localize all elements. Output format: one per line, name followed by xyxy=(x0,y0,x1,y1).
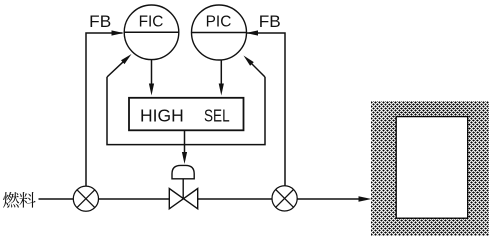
arrowhead into FIC left xyxy=(112,30,124,35)
wire: FIC output down to selector xyxy=(151,60,153,85)
controller PIC (instrument bubble) xyxy=(192,5,247,60)
wire: PIC output down to selector xyxy=(220,60,222,85)
valve stem xyxy=(182,179,184,199)
wire: left FB feedback line (from flow transmitter up, then right into FIC) xyxy=(86,33,123,186)
control valve actuator dome xyxy=(172,165,194,178)
furnace interior outline xyxy=(396,117,468,219)
furnace wall (crosshatched ring) xyxy=(208,81,495,242)
selector box HIGH SEL xyxy=(129,98,244,131)
pressure transmitter (circle-X) right xyxy=(272,186,297,211)
arrowhead into furnace xyxy=(359,196,372,201)
control valve body (bowtie) xyxy=(169,189,197,209)
svg-text:FB: FB xyxy=(259,13,281,31)
svg-text:SEL: SEL xyxy=(204,105,230,125)
svg-text:FB: FB xyxy=(89,13,111,31)
pipe: fuel line segments xyxy=(39,198,74,200)
wire: diagonal into PIC lower-right xyxy=(249,61,266,78)
wire: external feedback loop below selector (taps valve signal) xyxy=(107,77,265,145)
wire: selector output down to valve actuator xyxy=(184,131,186,154)
arrowhead into PIC right xyxy=(246,30,258,35)
controller FIC (instrument bubble) xyxy=(124,5,179,60)
svg-text:FIC: FIC xyxy=(139,13,164,30)
wire: right FB feedback line (from right transmitter up, then left into PIC) xyxy=(247,33,285,186)
svg-text:PIC: PIC xyxy=(206,13,232,30)
svg-text:HIGH: HIGH xyxy=(140,105,184,125)
wire: diagonal into FIC lower-left xyxy=(107,59,126,77)
flow transmitter (circle-X) left xyxy=(73,186,98,211)
label fuel 燃料 (glyph outlines) xyxy=(3,192,36,208)
